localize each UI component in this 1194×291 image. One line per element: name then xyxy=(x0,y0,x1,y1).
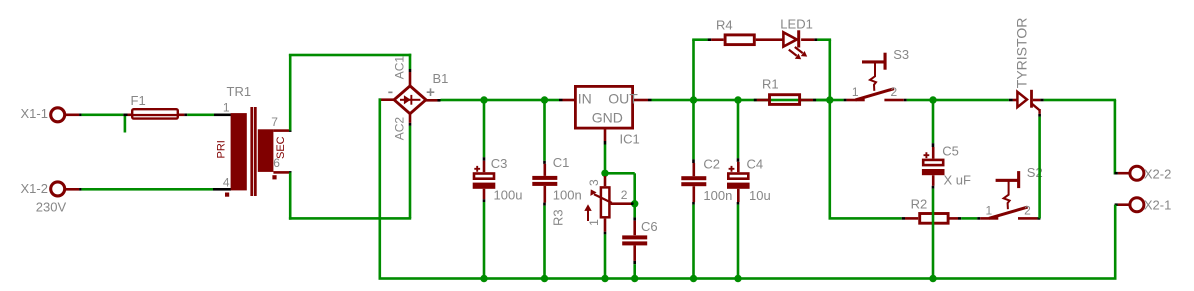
bridge minus mark xyxy=(388,92,392,94)
C3 pin top xyxy=(483,161,486,172)
R1 pin tip right xyxy=(813,99,816,102)
svg-text:B1: B1 xyxy=(433,71,449,86)
ground bus wire xyxy=(379,277,1117,280)
R4 pin left xyxy=(711,38,723,41)
TR1 pin 4 wire xyxy=(213,188,231,191)
bridge B1 inner diode triangle xyxy=(404,95,411,104)
capacitor C3 negative plate xyxy=(473,183,496,189)
C6 pin tip bottom xyxy=(633,261,636,264)
LED1 pin right xyxy=(801,38,814,41)
wire X1-2 to TR1 pin 4 xyxy=(82,188,213,191)
R3 adjust arrow shaft xyxy=(587,210,589,222)
bridge plus mark xyxy=(427,88,435,96)
capacitor C6 plate top xyxy=(622,235,647,239)
thyristor cathode bar xyxy=(1030,90,1033,108)
wire TR1 pin7 up xyxy=(289,54,292,131)
X2-1 pin tip xyxy=(1115,203,1118,206)
svg-text:LED1: LED1 xyxy=(780,17,813,32)
pin tip X1-1 xyxy=(79,114,82,117)
bridge B1 pin AC2 xyxy=(409,113,412,123)
svg-text:R2: R2 xyxy=(911,197,928,212)
C3 pin tip top xyxy=(483,157,486,161)
IC1 GND pin xyxy=(604,130,607,142)
pin tip F1 left xyxy=(123,114,127,117)
C2 pin tip bottom xyxy=(692,202,695,205)
capacitor C2 plate bottom xyxy=(681,182,706,186)
wire GND down to node A xyxy=(604,145,607,174)
IC1 OUT pin tip xyxy=(648,99,652,102)
wire cathode to X2-2 corner xyxy=(1044,99,1116,102)
capacitor C1 plate bottom xyxy=(532,182,557,186)
capacitor C5 negative plate xyxy=(922,169,945,175)
switch S3 right contact xyxy=(884,99,903,102)
C1 pin bottom xyxy=(544,186,547,203)
wire LED1 to branch corner xyxy=(817,38,831,41)
wire main to C1 xyxy=(543,100,546,161)
C4 pin tip top xyxy=(737,158,740,162)
C5 pin tip bottom xyxy=(932,186,935,189)
switch S2 right contact xyxy=(1018,217,1037,220)
bus junction dot C2 xyxy=(690,275,697,282)
thyristor cathode pin xyxy=(1033,99,1041,102)
svg-text:IN: IN xyxy=(578,91,592,107)
svg-text:2: 2 xyxy=(1024,203,1031,217)
R1 pin left xyxy=(757,99,768,102)
svg-text:X uF: X uF xyxy=(944,173,972,188)
switch S2 plunger head xyxy=(1017,171,1020,188)
svg-text:6: 6 xyxy=(273,156,280,170)
wire main to C3 xyxy=(483,100,486,157)
svg-text:C5: C5 xyxy=(942,144,959,159)
TR1 core line left xyxy=(250,107,253,196)
TR1 primary winding xyxy=(231,113,247,190)
svg-text:1: 1 xyxy=(986,203,993,217)
junction dot C5 xyxy=(929,96,936,103)
wire node B to C6 xyxy=(633,204,636,218)
wire corner to R2 xyxy=(829,217,902,220)
switch S3 plunger head xyxy=(884,53,887,70)
wire S2 to gate corner xyxy=(1038,117,1041,219)
svg-text:C3: C3 xyxy=(491,156,508,171)
wire B1 plus to IC1 IN xyxy=(441,99,560,102)
C4 plus mark xyxy=(729,166,735,172)
pin wire X1-2 xyxy=(66,188,79,191)
bus junction dot C1 xyxy=(541,275,548,282)
R2 pin tip right xyxy=(958,217,961,220)
TR1 pin 7 tip xyxy=(289,129,292,132)
wire R1 to junction xyxy=(816,99,830,102)
bus junction dot R3 xyxy=(601,275,608,282)
thyristor gate pin xyxy=(1038,109,1040,114)
switch S2 lever xyxy=(989,207,1028,218)
TR1 primary dot xyxy=(225,193,229,197)
svg-text:S3: S3 xyxy=(893,47,909,62)
capacitor C4 negative plate xyxy=(727,183,750,189)
C5 pin tip top xyxy=(932,143,935,147)
R2 pin left xyxy=(905,217,918,220)
capacitor C4 positive plate xyxy=(728,174,748,179)
wire IC1 OUT to S3 xyxy=(652,99,844,102)
junction dot C3 xyxy=(480,96,487,103)
IC1 IN pin xyxy=(563,99,575,102)
svg-text:4: 4 xyxy=(223,176,230,190)
bridge B1 plus pin tip xyxy=(438,99,441,102)
thyristor triangle xyxy=(1017,92,1027,107)
switch S3 stem and spring xyxy=(870,63,876,91)
C5 plus mark xyxy=(924,152,930,158)
wire main to C5 xyxy=(932,100,935,143)
R3 pin 1 xyxy=(604,219,607,232)
LED1 cathode bar xyxy=(797,30,800,47)
R3 wiper arrowhead xyxy=(590,189,596,196)
wire S3 to thyristor xyxy=(907,99,1009,102)
svg-text:TYRISTOR: TYRISTOR xyxy=(1014,18,1030,89)
bridge B1 inner diode bar xyxy=(410,95,412,105)
switch S3 lever xyxy=(855,89,894,100)
capacitor C1 plate top xyxy=(532,176,557,180)
R1 pin right xyxy=(801,99,813,102)
thyristor anode pin tip xyxy=(1009,99,1013,102)
TR1 secondary dot xyxy=(272,175,276,179)
C1 pin tip top xyxy=(543,161,546,164)
C6 pin tip top xyxy=(633,217,636,220)
wire up to bridge AC2 pin xyxy=(409,126,412,219)
svg-text:X2-2: X2-2 xyxy=(1144,167,1171,182)
X2-2 pin wire xyxy=(1118,172,1129,175)
wire B1 minus down to bus xyxy=(379,98,382,278)
switch S2 pin tip left xyxy=(977,217,980,220)
bus junction dot C4 xyxy=(734,275,741,282)
svg-text:3: 3 xyxy=(587,179,601,186)
bridge AC1 pin tip xyxy=(409,69,412,72)
C6 pin bottom xyxy=(633,245,636,261)
wire LED branch down to main xyxy=(829,40,832,100)
R1 pin tip left xyxy=(754,99,757,102)
switch S2 plunger bar xyxy=(996,179,1018,182)
R2 pin right xyxy=(950,217,959,220)
resistor R1 body xyxy=(770,95,800,105)
junction dot C2 / LED branch xyxy=(690,96,697,103)
LED1 pin tip xyxy=(814,38,817,41)
fuse F1 body xyxy=(132,109,178,118)
R3 pin 2 tip xyxy=(631,202,634,205)
terminal X2-1 xyxy=(1130,198,1144,212)
wire F1 to TR1 pin 1 xyxy=(187,114,214,117)
bridge AC2 pin tip xyxy=(409,123,412,126)
C4 pin tip bottom xyxy=(737,202,740,205)
svg-text:R4: R4 xyxy=(716,18,733,33)
switch S3 pin tip left xyxy=(844,99,847,102)
resistor R2 body xyxy=(920,214,948,224)
TR1 pin 7 wire xyxy=(273,129,289,132)
bridge B1 pin AC1 xyxy=(409,72,412,87)
wire X1-1 to F1 xyxy=(82,114,124,117)
pin tip X1-2 xyxy=(79,188,82,191)
C3 pin bottom xyxy=(483,189,486,200)
switch S2 left contact xyxy=(980,217,998,220)
wire to R4 xyxy=(692,38,707,41)
TR1 pin 6 tip xyxy=(289,171,292,174)
junction dot node B xyxy=(631,200,638,207)
C5 pin bottom xyxy=(932,175,935,186)
svg-text:100u: 100u xyxy=(494,188,523,203)
junction stub at F1 pin xyxy=(124,115,127,133)
bridge B1 pin minus xyxy=(381,98,395,101)
svg-text:X1-2: X1-2 xyxy=(21,181,48,196)
TR1 pin 1 wire xyxy=(214,114,231,117)
R3 pin 2 wire xyxy=(611,202,631,205)
svg-text:IC1: IC1 xyxy=(620,132,640,147)
svg-text:X1-1: X1-1 xyxy=(21,106,48,121)
capacitor C2 plate top xyxy=(681,176,706,180)
svg-text:1: 1 xyxy=(587,219,601,226)
C2 pin bottom xyxy=(693,186,696,202)
switch S3 left contact xyxy=(847,99,865,102)
C1 pin top xyxy=(544,164,547,176)
switch S3 pin tip right xyxy=(904,99,907,102)
junction dot node A xyxy=(601,170,608,177)
wire node A to right xyxy=(605,172,635,175)
svg-text:AC2: AC2 xyxy=(392,117,406,141)
terminal X1-1 xyxy=(51,108,65,122)
IC1 box xyxy=(575,86,632,128)
terminal X1-2 xyxy=(51,182,65,196)
svg-text:F1: F1 xyxy=(131,93,146,108)
wire C1 to bus xyxy=(543,206,546,279)
wire X2-1 down to bus xyxy=(1114,205,1117,279)
wire C4 to bus xyxy=(737,205,740,279)
bridge B1 diamond body xyxy=(394,86,426,114)
wire top to bridge AC1 xyxy=(289,54,411,57)
wire C6 to bus xyxy=(633,264,636,278)
svg-text:C1: C1 xyxy=(553,155,570,170)
C3 plus mark xyxy=(474,166,480,172)
IC1 OUT pin xyxy=(634,99,648,102)
svg-text:R1: R1 xyxy=(762,77,779,92)
svg-text:1: 1 xyxy=(223,101,230,115)
svg-text:TR1: TR1 xyxy=(227,84,252,99)
LED1 emission arrow 1 xyxy=(789,50,797,56)
capacitor C6 plate bottom xyxy=(622,241,647,245)
bus junction dot C3 xyxy=(480,275,487,282)
junction dot LED return / R2 branch xyxy=(826,96,833,103)
svg-text:C4: C4 xyxy=(747,157,764,172)
wire C3 to bus xyxy=(483,202,486,279)
C6 pin top xyxy=(633,221,636,236)
pin wire X1-1 xyxy=(66,114,79,117)
C4 pin top xyxy=(737,162,740,172)
wire branch down from main xyxy=(829,100,832,218)
C2 pin top xyxy=(693,163,696,176)
wire bottom to bridge AC2 xyxy=(289,217,411,220)
svg-text:1: 1 xyxy=(852,85,859,99)
svg-text:AC1: AC1 xyxy=(392,56,406,80)
LED1 emission arrow 2 xyxy=(795,47,803,53)
IC1 IN pin tip xyxy=(559,99,563,102)
svg-text:PRI: PRI xyxy=(215,140,227,158)
X2-1 pin wire xyxy=(1118,203,1129,206)
potentiometer R3 body xyxy=(601,187,610,217)
bus junction dot C6 xyxy=(631,275,638,282)
R4 pin right / wire to LED1 xyxy=(756,38,783,41)
switch S2 stem and spring xyxy=(1004,181,1010,209)
terminal X2-2 xyxy=(1130,166,1144,180)
fuse F1 element line xyxy=(132,114,179,116)
LED1 triangle xyxy=(783,32,796,46)
C3 pin tip bottom xyxy=(483,199,486,202)
wire main to C2 xyxy=(692,100,695,159)
C2 pin tip top xyxy=(692,159,695,163)
wire down to X2-2 xyxy=(1114,100,1117,175)
svg-text:2: 2 xyxy=(621,188,628,202)
wire R2 to S2 xyxy=(961,217,977,220)
svg-text:230V: 230V xyxy=(36,200,67,215)
wire R3 pin1 to bus xyxy=(604,234,607,278)
switch S3 plunger bar xyxy=(862,60,884,63)
wire down to bridge AC1 pin xyxy=(409,54,412,69)
capacitor C5 positive plate xyxy=(923,160,943,165)
bridge B1 minus pin tip xyxy=(379,98,382,101)
pin F1 right xyxy=(179,114,184,117)
svg-text:100n: 100n xyxy=(703,188,732,203)
C5 pin top xyxy=(932,147,935,159)
TR1 secondary winding xyxy=(258,129,274,172)
thyristor cathode pin tip xyxy=(1040,99,1043,102)
thyristor gate pin tip xyxy=(1038,114,1041,117)
bus junction dot C5 xyxy=(929,275,936,282)
wire main to C4 xyxy=(737,100,740,158)
X2-2 pin tip xyxy=(1115,172,1118,175)
svg-text:100n: 100n xyxy=(553,188,582,203)
thyristor gate line xyxy=(1032,104,1039,110)
junction dot C1 xyxy=(541,96,548,103)
TR1 pin 6 wire xyxy=(273,171,289,174)
R3 wiper arrow shaft xyxy=(594,194,612,203)
wire branch up from main xyxy=(692,40,695,100)
svg-text:GND: GND xyxy=(592,110,623,126)
svg-text:X2-1: X2-1 xyxy=(1144,198,1171,213)
svg-text:R3: R3 xyxy=(550,209,565,226)
R3 adjust arrowhead xyxy=(584,204,591,211)
svg-text:C6: C6 xyxy=(641,219,658,234)
wire C2 to bus xyxy=(692,205,695,279)
R2 pin tip left xyxy=(902,217,905,220)
C4 pin bottom xyxy=(737,189,740,202)
switch S2 pin tip right xyxy=(1037,217,1040,220)
R4 pin tip left xyxy=(708,38,712,41)
capacitor C3 positive plate xyxy=(474,174,494,179)
svg-text:C2: C2 xyxy=(703,157,720,172)
junction dot C4 xyxy=(734,96,741,103)
svg-text:7: 7 xyxy=(271,115,278,129)
svg-text:OUT: OUT xyxy=(608,91,638,107)
TR1 core line right xyxy=(254,107,257,196)
resistor R4 body xyxy=(725,35,754,45)
svg-text:10u: 10u xyxy=(749,188,771,203)
R3 pin 1 tip xyxy=(604,232,607,235)
bridge B1 inner diode line xyxy=(400,99,420,101)
svg-text:2: 2 xyxy=(891,85,898,99)
bridge B1 pin plus xyxy=(425,99,438,102)
pin tip F1 right xyxy=(184,114,187,117)
wire down to node B xyxy=(633,173,636,203)
IC1 GND pin tip xyxy=(604,141,607,145)
wire C5 through R2 to bus xyxy=(932,189,935,279)
thyristor anode pin xyxy=(1013,99,1017,102)
pin F1 left xyxy=(128,114,132,117)
R3 pin 3 xyxy=(604,176,607,186)
C1 pin tip bottom xyxy=(543,203,546,206)
wire TR1 pin6 down xyxy=(289,172,292,219)
